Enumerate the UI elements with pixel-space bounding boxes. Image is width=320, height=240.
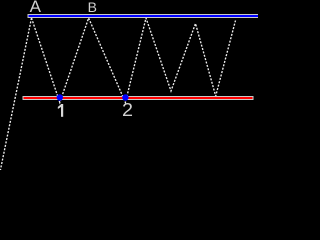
node 2: blue dot marker (122, 94, 128, 100)
label B (88, 0, 97, 14)
node 1: blue dot marker (57, 94, 63, 100)
label A (30, 0, 41, 15)
label 2 (122, 101, 133, 119)
node: lower support band (white edged red line) (23, 96, 254, 100)
wire: long dashed decline from peak A to bottom-left corner (0, 18, 32, 172)
node: upper resistance band (white edged blue line) (28, 14, 259, 18)
label 1 (drawn: stem + flag, no foot serif) (58, 104, 63, 117)
wire: zigzag price pattern A-1-B-2 and converging swings (32, 18, 236, 103)
